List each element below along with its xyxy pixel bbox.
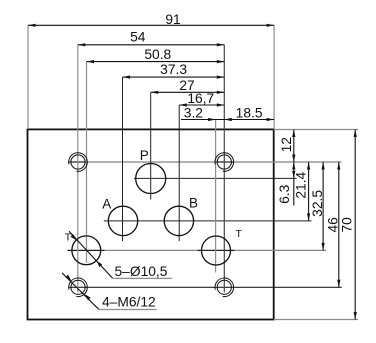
bolt hole top-right M6	[215, 153, 234, 172]
dim 50.8 line	[87, 60, 225, 63]
leader 4-M6/12	[62, 273, 99, 309]
bolt row bottom centerline y=287.3	[69, 286, 342, 288]
leader 5-diam10,5 underline	[113, 277, 172, 279]
dim 16,7 line	[179, 103, 224, 106]
svg-text:3.2: 3.2	[184, 105, 203, 120]
dim 6.3 line (vertical, extended)	[292, 162, 295, 206]
dim 70 line (vertical)	[354, 130, 357, 320]
bolt hole bottom-left M6	[69, 278, 88, 297]
bolt hole top-left M6	[69, 153, 88, 172]
extension column x=122.5 (37.3 left, hole A)	[122, 77, 124, 241]
extension column x=77.8 (54 left, bolt holes left)	[77, 45, 79, 293]
svg-text:16,7: 16,7	[187, 91, 214, 106]
hole T left	[72, 236, 101, 265]
svg-text:32.5: 32.5	[310, 190, 325, 217]
dim 37.3 line	[123, 76, 225, 79]
extension column x=274 (91 right / 18.5 right)	[273, 25, 275, 129]
svg-text:T: T	[235, 228, 242, 240]
leader 4-M6/12 underline	[99, 309, 157, 311]
extension column x=224.3 (right bolt holes, chain right ends)	[223, 45, 225, 293]
svg-text:A: A	[102, 196, 111, 211]
extension column x=179.2 (16.7 left, hole B)	[178, 105, 180, 241]
leader 5-diam10,5	[69, 231, 113, 278]
svg-text:T: T	[65, 232, 72, 244]
svg-text:B: B	[189, 196, 198, 211]
bolt hole bottom-right M6	[215, 278, 234, 297]
dim 12 line (vertical)	[292, 130, 295, 163]
extension column x=28 (91 left)	[27, 25, 29, 129]
svg-text:P: P	[140, 148, 149, 163]
svg-text:37.3: 37.3	[160, 62, 187, 77]
extension column x=215.6 (3.2, T right hole)	[215, 120, 217, 273]
svg-text:50.8: 50.8	[144, 47, 171, 62]
extension line plate bottom edge to 70 dim	[274, 319, 358, 321]
svg-text:4–M6/12: 4–M6/12	[102, 295, 156, 310]
hole A	[108, 206, 137, 235]
svg-text:70: 70	[340, 217, 355, 233]
dim 3.2 line with outside arrow	[181, 118, 274, 121]
dim 27 line	[151, 91, 225, 94]
bolt row top centerline y=162	[69, 161, 342, 163]
dim 46 line (vertical)	[337, 162, 340, 287]
svg-text:54: 54	[130, 29, 146, 44]
plate outline 91x70	[28, 129, 274, 319]
extension column x=86.5 (50.8 left, T left hole)	[86, 62, 88, 263]
hole P	[136, 164, 166, 194]
extension column x=150.7 (27 left, hole P)	[150, 92, 152, 199]
extension line plate top edge to 70 dim	[274, 129, 358, 131]
hole B	[164, 206, 193, 235]
dim 54 line	[78, 43, 225, 46]
svg-text:5–Ø10,5: 5–Ø10,5	[115, 264, 168, 279]
svg-text:12: 12	[279, 137, 294, 152]
svg-text:91: 91	[165, 12, 180, 27]
dim 21.4 line (vertical)	[307, 162, 310, 221]
dim 91 line	[28, 24, 274, 27]
svg-text:6.3: 6.3	[277, 184, 292, 204]
A-B row centerline	[104, 220, 312, 222]
svg-text:18.5: 18.5	[236, 106, 263, 121]
svg-text:46: 46	[326, 217, 341, 233]
T row centerline	[67, 249, 326, 251]
svg-text:21.4: 21.4	[293, 171, 308, 198]
P row centerline	[134, 177, 297, 179]
dim 32.5 line (vertical)	[322, 162, 325, 250]
hole T right	[202, 236, 231, 265]
